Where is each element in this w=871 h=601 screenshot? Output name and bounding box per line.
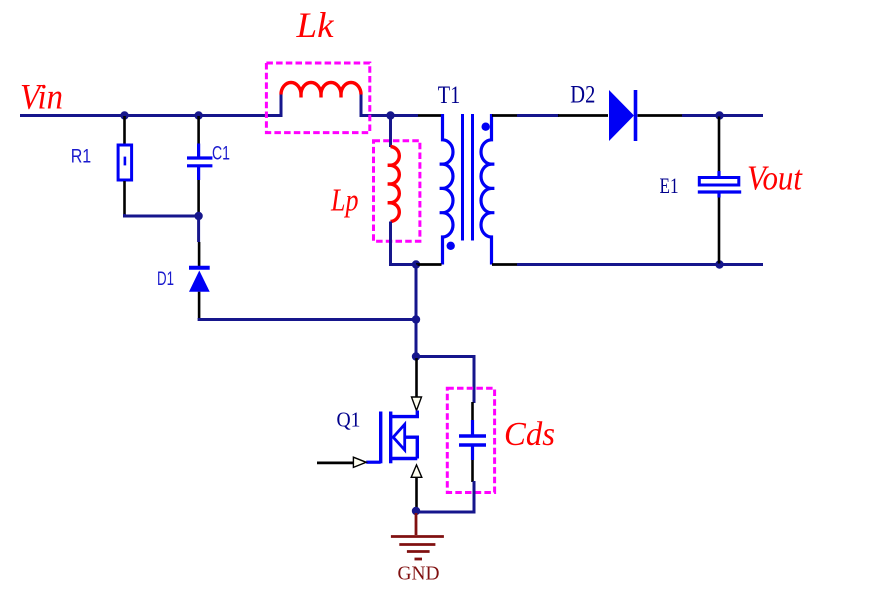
node: Vin junction at C1 [194, 111, 202, 119]
capacitor Cds stub top [471, 420, 474, 435]
svg-text:T1: T1 [438, 82, 461, 109]
wire: primary return vertical [415, 265, 418, 358]
wire: output bottom rail [517, 263, 763, 266]
node: junction snubber/drain rail [412, 315, 420, 323]
svg-text:E1: E1 [660, 173, 679, 198]
transformer T1 pin 3 (top-right, black) [492, 114, 517, 117]
transistor Q1 drain arrow [412, 397, 422, 411]
wire: Lp top stub [389, 116, 392, 148]
svg-text:Q1: Q1 [337, 408, 361, 432]
capacitor E1 pin top [718, 117, 721, 173]
transistor Q1 body tap [405, 437, 418, 458]
gate arrow [353, 457, 366, 467]
resistor R1 inner mark [124, 157, 127, 166]
capacitor E1 stub top [717, 171, 720, 176]
diode D1 cathode bar [189, 266, 210, 270]
capacitor Cds plate top [459, 434, 486, 438]
capacitor C1 pin top [197, 116, 200, 144]
resistor R1 pin bottom [123, 181, 126, 215]
node: output top junction [715, 111, 723, 119]
svg-text:Vin: Vin [20, 77, 63, 117]
wire: D2 to output top rail [682, 114, 763, 117]
wire: secondary top to D2 [517, 114, 559, 117]
inductor Lk coil [281, 83, 361, 98]
ground bar 1 [391, 535, 444, 538]
transformer T1 pin 2 (bottom-left, black) [416, 263, 442, 266]
capacitor C1 pin bottom [197, 180, 200, 215]
transistor Q1 drain branch [391, 411, 418, 417]
wire: Lp bottom to primary return [391, 222, 417, 265]
node: junction drain/Cds [412, 352, 420, 360]
capacitor C1 stub top [197, 144, 200, 158]
svg-text:D1: D1 [157, 268, 174, 290]
wire: Lk left stub [280, 95, 283, 118]
svg-text:GND: GND [398, 563, 440, 585]
Lp dashed box [374, 141, 420, 242]
ground stub [415, 513, 418, 535]
svg-text:Lk: Lk [295, 5, 334, 45]
capacitor C1 plate bottom [187, 164, 212, 167]
wire: Vin rail right segment (Lk to T1 junction) [361, 114, 418, 117]
transformer T1 core line right [471, 114, 474, 241]
Cds dashed box [447, 388, 494, 492]
transformer T1 phase dot secondary [482, 123, 490, 131]
transformer T1 primary winding [440, 114, 453, 265]
diode D2 cathode pin [638, 114, 683, 117]
transistor Q1 source arrow [411, 465, 422, 477]
transistor Q1 gate bar [379, 412, 382, 464]
diode D2 triangle [609, 90, 634, 141]
ground bar 2 [399, 543, 435, 546]
resistor R1 pin top [123, 116, 126, 145]
node: junction at C1 bottom [194, 212, 202, 220]
capacitor E1 plate top (box) [699, 178, 739, 186]
capacitor E1 pin bottom [718, 198, 721, 264]
inductor Lp coil [388, 147, 400, 222]
ground bar 3 [407, 550, 430, 553]
transformer T1 core line left [461, 114, 464, 241]
wire: to Cds top [416, 357, 474, 404]
capacitor Cds stub bottom [471, 446, 474, 460]
diode D1 triangle [189, 271, 210, 292]
wire: Lk right stub [360, 95, 363, 118]
capacitor E1 plate bottom [698, 190, 741, 193]
capacitor Cds pin bottom [471, 460, 474, 482]
capacitor Cds pin top [471, 402, 474, 421]
transformer T1 secondary winding [481, 114, 494, 265]
transistor Q1 body-diode triangle [393, 424, 405, 450]
wire: Cds bottom to source node [416, 481, 474, 512]
transistor Q1 channel bar [389, 412, 392, 464]
node: Vin junction at R1 [120, 111, 128, 119]
transistor Q1 source pin [415, 477, 418, 509]
transformer T1 pin 4 (bottom-right, black) [492, 263, 517, 266]
transistor Q1 source branch [391, 457, 418, 460]
transistor Q1 gate stub [366, 461, 381, 464]
node: junction primary bottom [412, 260, 420, 268]
capacitor Cds plate bottom [459, 443, 486, 447]
wire: R1/C1 bottom link [123, 215, 199, 218]
diode D1 pin bottom [198, 292, 201, 319]
svg-text:Cds: Cds [504, 416, 555, 453]
ground bar 4 [415, 558, 423, 561]
node: junction source/ground [412, 507, 420, 515]
node: junction at Lp tap [386, 111, 394, 119]
Lk dashed box [266, 63, 369, 133]
wire: gate drive lead [317, 461, 354, 464]
capacitor C1 plate top [187, 156, 212, 159]
transformer T1 phase dot primary [447, 242, 455, 250]
transformer T1 pin 1 (top-left, black) [418, 114, 442, 117]
diode D2 cathode bar [634, 90, 638, 141]
node: output bottom junction [715, 260, 723, 268]
svg-text:Vout: Vout [747, 159, 803, 198]
capacitor E1 stub bottom [717, 192, 720, 198]
svg-text:R1: R1 [71, 146, 92, 168]
svg-text:Lp: Lp [330, 182, 358, 218]
capacitor C1 stub bottom [197, 167, 200, 181]
wire: Vin rail left segment [20, 114, 281, 117]
svg-text:C1: C1 [212, 143, 230, 165]
wire: D1 to switch node (snubber return) [199, 318, 416, 320]
resistor R1 body [118, 145, 132, 180]
transistor Q1 drain pin [415, 358, 418, 397]
diode D1 pin top [197, 217, 200, 242]
diode D2 anode pin [558, 114, 608, 117]
svg-text:D2: D2 [570, 82, 595, 109]
